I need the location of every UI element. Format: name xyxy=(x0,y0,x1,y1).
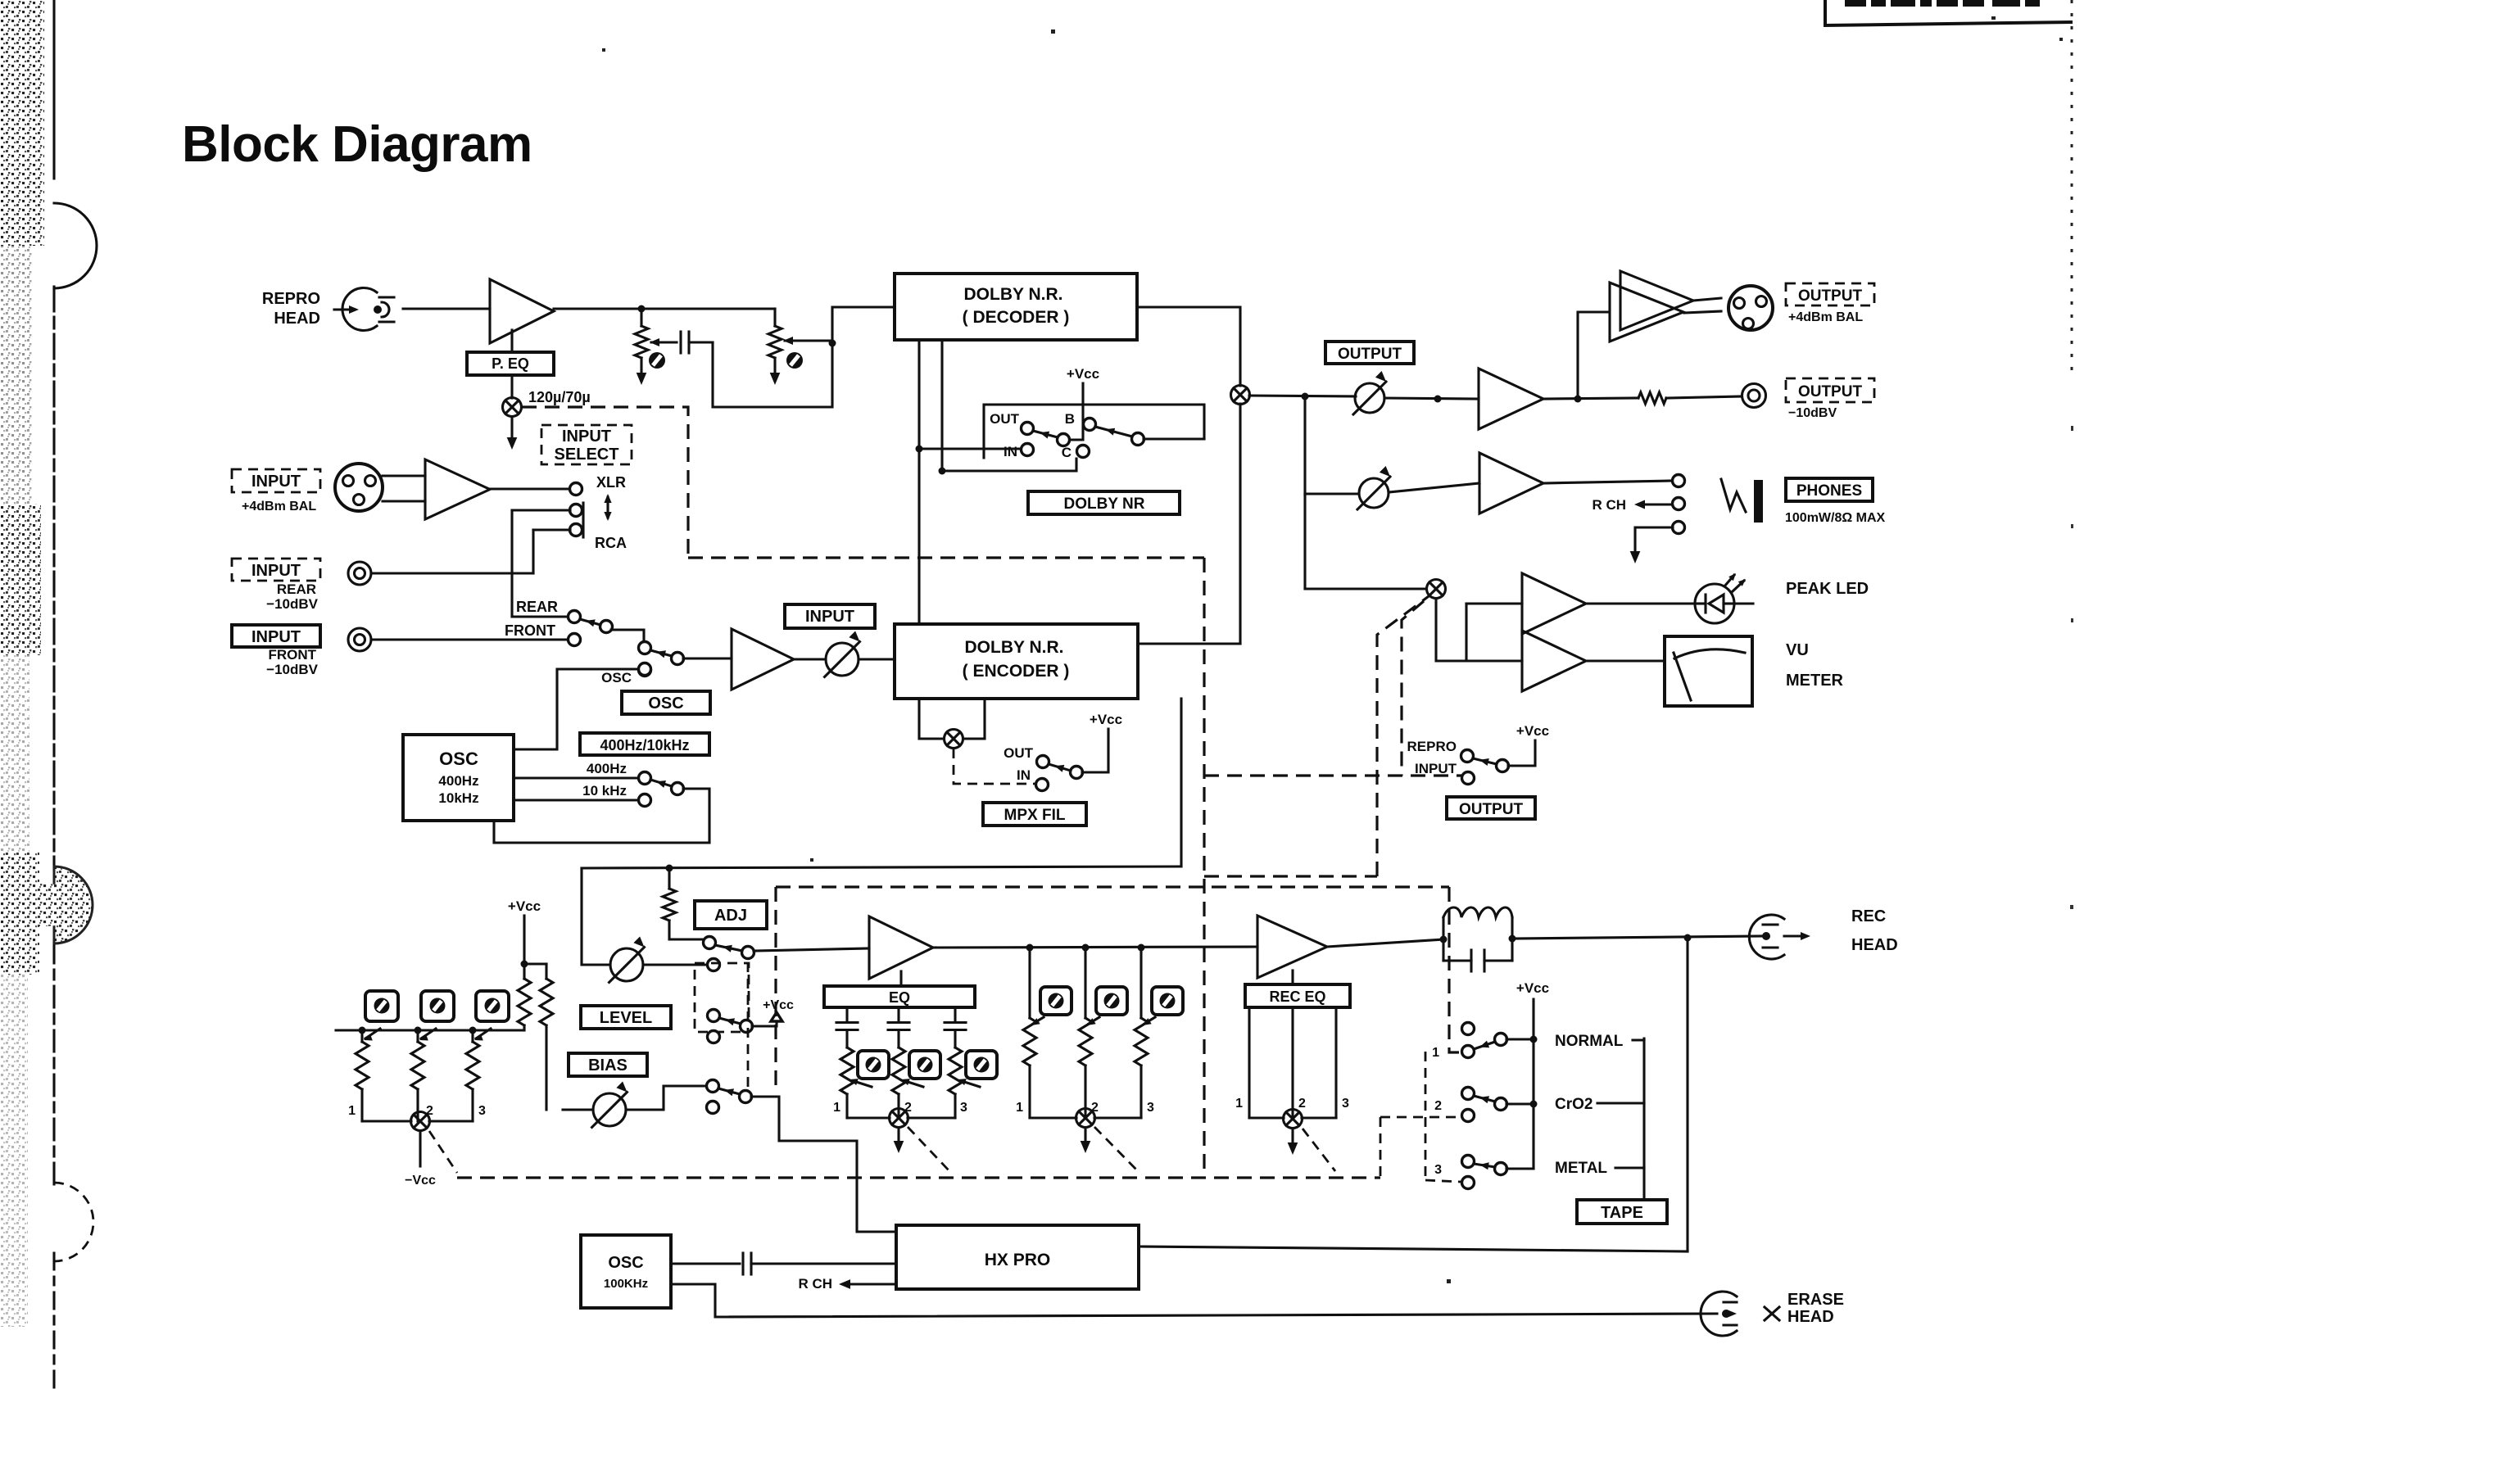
EQ trimmer A3 xyxy=(954,1007,956,1021)
ERASE HEAD xyxy=(1701,1292,1737,1336)
svg-text:INPUT: INPUT xyxy=(1415,761,1457,776)
phones level pot xyxy=(1305,492,1358,495)
INPUT SELECT dashed box xyxy=(541,425,632,464)
tape switch row 1 (NORMAL) xyxy=(1462,1023,1475,1035)
EQ label box xyxy=(899,971,902,986)
svg-text:( DECODER ): ( DECODER ) xyxy=(963,308,1070,327)
svg-text:120µ/70µ: 120µ/70µ xyxy=(528,389,591,405)
phones wire to jack xyxy=(1543,481,1672,483)
record input pot xyxy=(794,658,826,660)
svg-text:OUT: OUT xyxy=(1004,745,1034,761)
rec head branch down xyxy=(1686,938,1688,1251)
FRONT RCA jack xyxy=(348,628,371,651)
svg-text:IN: IN xyxy=(1017,767,1031,783)
decoder output to mixer xyxy=(1137,307,1240,386)
svg-text:R CH: R CH xyxy=(1592,497,1626,513)
svg-text:EQ: EQ xyxy=(889,989,910,1006)
OUTPUT +4dBm dashed box xyxy=(1786,283,1874,305)
output level pot xyxy=(1355,383,1384,413)
svg-text:RCA: RCA xyxy=(595,535,627,551)
svg-text:1: 1 xyxy=(348,1104,356,1118)
REC EQ bus xyxy=(1249,1116,1284,1119)
bias trimmer 3 xyxy=(471,1030,473,1042)
svg-text:3: 3 xyxy=(960,1101,967,1115)
REC HEAD xyxy=(1749,915,1784,959)
-Vcc xyxy=(419,1131,421,1166)
dashed -Vcc control xyxy=(429,1131,457,1173)
svg-text:DOLBY N.R.: DOLBY N.R. xyxy=(965,638,1064,657)
svg-text:OUT: OUT xyxy=(990,411,1020,427)
REC EQ pin 1 xyxy=(1248,1007,1250,1118)
svg-text:INPUT: INPUT xyxy=(562,428,611,446)
EQ trimmer B3 xyxy=(1139,948,1142,1018)
svg-text:SELECT: SELECT xyxy=(555,446,619,464)
EQ trimmer A1 xyxy=(845,1007,848,1021)
mixer down to encoder monitor pin xyxy=(1239,404,1241,644)
svg-text:DOLBY NR: DOLBY NR xyxy=(1064,495,1145,513)
EQ trimmer B2 xyxy=(1084,948,1086,1018)
record source switch xyxy=(639,642,651,654)
10kHz wire xyxy=(514,799,638,801)
svg-text:OSC: OSC xyxy=(648,694,683,713)
svg-text:R CH: R CH xyxy=(798,1276,832,1292)
svg-text:2: 2 xyxy=(1091,1101,1099,1115)
svg-text:2: 2 xyxy=(1298,1097,1306,1111)
erase feed from osc xyxy=(671,1284,1717,1317)
svg-text:+Vcc: +Vcc xyxy=(1090,712,1122,727)
svg-text:XLR: XLR xyxy=(596,474,626,491)
svg-text:B: B xyxy=(1065,411,1075,427)
record trap LC xyxy=(1440,936,1448,943)
svg-text:1: 1 xyxy=(1016,1101,1023,1115)
svg-text:1: 1 xyxy=(833,1101,840,1115)
decoder pins down xyxy=(917,340,920,624)
svg-text:OUTPUT: OUTPUT xyxy=(1459,801,1524,818)
wire amp out to RCA xyxy=(1543,398,1638,399)
branch up to balanced amp xyxy=(1578,312,1608,399)
svg-text:OUTPUT: OUTPUT xyxy=(1798,287,1863,305)
svg-text:2: 2 xyxy=(904,1101,912,1115)
record line amp xyxy=(732,629,794,690)
balanced output amp (double) xyxy=(1610,283,1683,342)
400Hz wire xyxy=(514,776,638,779)
VU meter xyxy=(1665,636,1752,706)
INPUT label box (record) xyxy=(785,604,875,628)
playback mixer xyxy=(1231,386,1250,405)
HX PRO box xyxy=(896,1225,1139,1289)
svg-text:C: C xyxy=(1062,445,1072,460)
MPX dashed to IN contact xyxy=(954,749,1035,784)
ADJ resistor xyxy=(668,868,670,889)
PHONES label box xyxy=(1786,478,1873,501)
REC EQ pin 3 xyxy=(1334,1007,1337,1118)
output amp xyxy=(1479,369,1543,429)
bias trimmer 1 xyxy=(360,1030,363,1042)
EQ A bus xyxy=(847,1116,890,1119)
OSC generator box xyxy=(403,735,514,821)
TAPE label box xyxy=(1577,1200,1667,1224)
bias bus bottom xyxy=(362,1120,411,1122)
svg-text:HEAD: HEAD xyxy=(1851,936,1898,954)
DOLBY N.R. DECODER box xyxy=(895,274,1137,340)
400Hz/10kHz label box xyxy=(580,733,709,755)
svg-text:PEAK LED: PEAK LED xyxy=(1786,580,1869,598)
output resistor xyxy=(1638,392,1666,404)
REAR RCA jack xyxy=(348,562,371,585)
REC EQ label box xyxy=(1291,970,1294,984)
wire pot to output amp xyxy=(1384,398,1479,399)
repro EQ pot 2 xyxy=(773,309,776,326)
wire repro amp output xyxy=(554,307,775,310)
svg-text:REPRO: REPRO xyxy=(1407,739,1457,754)
svg-text:NORMAL: NORMAL xyxy=(1555,1033,1624,1050)
svg-text:OUTPUT: OUTPUT xyxy=(1798,383,1863,400)
svg-text:CrO2: CrO2 xyxy=(1555,1096,1593,1113)
wire amp to XLR contact xyxy=(490,487,569,490)
binder bump 2 (dark) xyxy=(54,866,93,943)
svg-text:3: 3 xyxy=(1434,1163,1442,1177)
svg-text:100KHz: 100KHz xyxy=(604,1277,648,1291)
dashed bias/eq control xyxy=(776,885,1449,888)
rear/front switch xyxy=(569,611,581,623)
svg-text:OSC: OSC xyxy=(439,749,478,769)
encoder bottom pin to record bus xyxy=(1180,699,1182,866)
XLR contact xyxy=(570,483,582,495)
dashed tape select lines xyxy=(1449,887,1462,1052)
phones jack plug symbol xyxy=(1721,479,1746,512)
OSC label box xyxy=(622,691,710,714)
dashed input select control from mixer xyxy=(522,407,688,558)
wire to 2nd switch xyxy=(611,630,644,641)
svg-text:METER: METER xyxy=(1786,672,1844,690)
dolby switch bracket xyxy=(984,405,1204,458)
REC EQ pin 2 xyxy=(1291,1007,1294,1118)
wire bias to HX PRO xyxy=(751,1097,896,1232)
BIAS label box xyxy=(569,1053,647,1076)
wires RCA contacts xyxy=(512,509,570,511)
EQ amp xyxy=(869,916,933,979)
svg-text:REC EQ: REC EQ xyxy=(1269,989,1325,1005)
input amp (XLR) xyxy=(425,459,490,519)
svg-text:ADJ: ADJ xyxy=(714,907,747,925)
svg-text:+Vcc: +Vcc xyxy=(1516,980,1549,996)
XLR/RCA select arrows xyxy=(606,497,609,518)
tape bracket xyxy=(1633,1038,1644,1041)
svg-text:FRONT: FRONT xyxy=(268,647,316,663)
svg-text:2: 2 xyxy=(1434,1099,1442,1113)
svg-text:2: 2 xyxy=(426,1104,433,1118)
level pot branch xyxy=(582,868,610,965)
svg-text:LEVEL: LEVEL xyxy=(600,1009,652,1027)
svg-text:OUTPUT: OUTPUT xyxy=(1338,346,1402,363)
phones amp xyxy=(1389,483,1479,492)
bias trimmer 2 xyxy=(416,1030,419,1042)
svg-text:1: 1 xyxy=(1432,1046,1439,1060)
rec cal switch (dashed box) xyxy=(695,963,749,1032)
svg-text:INPUT: INPUT xyxy=(251,628,301,646)
svg-text:400Hz: 400Hz xyxy=(438,773,478,789)
svg-text:DOLBY N.R.: DOLBY N.R. xyxy=(964,285,1063,304)
wire LC to rec head xyxy=(1512,936,1763,939)
svg-text:HEAD: HEAD xyxy=(274,310,320,328)
XLR output connector xyxy=(1728,286,1773,330)
branch to phones pot xyxy=(1303,396,1306,495)
svg-text:OSC: OSC xyxy=(601,670,632,685)
OSC 100kHz box xyxy=(581,1235,671,1308)
phones ground arrow xyxy=(1635,527,1673,554)
svg-text:400Hz: 400Hz xyxy=(587,761,627,776)
svg-text:+4dBm BAL: +4dBm BAL xyxy=(1788,310,1863,324)
svg-text:400Hz/10kHz: 400Hz/10kHz xyxy=(600,737,689,753)
mixer to meter amps xyxy=(1436,599,1466,661)
HX PRO output to rec line xyxy=(1139,1246,1688,1251)
svg-text:TAPE: TAPE xyxy=(1601,1204,1643,1222)
svg-text:ERASE: ERASE xyxy=(1787,1291,1844,1309)
record bus horizontal xyxy=(582,866,1181,868)
svg-text:VU: VU xyxy=(1786,641,1809,659)
wire pot to encoder xyxy=(859,658,895,660)
EQ B bus xyxy=(1030,1116,1076,1119)
svg-text:100mW/8Ω MAX: 100mW/8Ω MAX xyxy=(1785,511,1886,525)
svg-text:IN: IN xyxy=(1004,444,1017,459)
bias trimmer bus xyxy=(336,1029,524,1031)
wire P.EQ to mixer xyxy=(510,375,513,398)
svg-text:INPUT: INPUT xyxy=(251,562,301,580)
bias feed resistors xyxy=(524,962,546,965)
svg-text:OSC: OSC xyxy=(608,1254,643,1272)
DOLBY NR label box xyxy=(1028,491,1180,514)
repro head xyxy=(342,288,377,331)
svg-text:+4dBm BAL: +4dBm BAL xyxy=(242,500,316,514)
svg-text:P. EQ: P. EQ xyxy=(492,355,529,372)
svg-text:INPUT: INPUT xyxy=(251,473,301,491)
svg-text:REAR: REAR xyxy=(516,599,558,615)
P. EQ box xyxy=(510,330,513,352)
MPX mixer xyxy=(945,730,963,749)
svg-text:+Vcc: +Vcc xyxy=(763,998,794,1012)
svg-text:PHONES: PHONES xyxy=(1796,482,1862,500)
svg-text:−10dBV: −10dBV xyxy=(1788,406,1837,420)
binder bump 3 (faint) xyxy=(54,1183,93,1261)
INPUT +4dBm dashed box xyxy=(232,469,320,492)
tape switch row 3 (METAL) xyxy=(1462,1156,1475,1168)
svg-text:+Vcc: +Vcc xyxy=(1067,366,1099,382)
dashed input select to record select xyxy=(688,556,1204,559)
dashed from EQ A mixer xyxy=(908,1127,950,1172)
MPX FIL label box xyxy=(983,803,1086,826)
repro amp xyxy=(490,279,554,343)
svg-text:HEAD: HEAD xyxy=(1787,1308,1834,1326)
svg-text:−10dBV: −10dBV xyxy=(266,596,318,612)
RCA pair contacts xyxy=(570,504,582,517)
REC EQ amp xyxy=(1257,916,1327,978)
INPUT REAR dashed box xyxy=(232,559,320,581)
dotted vertical line top right xyxy=(2071,0,2073,370)
wires XLR to input amp xyxy=(383,474,425,477)
ADJ label box xyxy=(695,901,767,929)
XLR input connector xyxy=(335,464,383,511)
encoder monitor input from mixer xyxy=(1138,642,1240,645)
EQ trimmer A2 xyxy=(897,1007,899,1021)
svg-text:MPX FIL: MPX FIL xyxy=(1004,807,1066,824)
svg-text:INPUT: INPUT xyxy=(805,608,854,626)
left margin scan speckle xyxy=(0,0,44,246)
svg-text:3: 3 xyxy=(478,1104,486,1118)
OUTPUT label box (monitor) xyxy=(1447,797,1535,819)
svg-text:REC: REC xyxy=(1851,907,1886,925)
bias switch xyxy=(626,1086,705,1110)
svg-text:Block Diagram: Block Diagram xyxy=(182,116,532,173)
INPUT FRONT box xyxy=(232,625,320,647)
vu amp xyxy=(1466,659,1522,662)
RCA output jack xyxy=(1742,384,1766,408)
repro EQ pot 1 xyxy=(640,309,642,326)
svg-text:BIAS: BIAS xyxy=(588,1056,627,1075)
ADJ switch xyxy=(704,937,716,949)
DOLBY N.R. ENCODER box xyxy=(895,624,1138,699)
arrow down from mixer xyxy=(510,417,513,439)
svg-text:3: 3 xyxy=(1342,1097,1349,1111)
capacitor repro EQ xyxy=(679,332,682,353)
svg-text:−10dBV: −10dBV xyxy=(266,662,318,677)
tape switch row 2 (CrO2) xyxy=(1462,1088,1475,1100)
phones jack contacts xyxy=(1673,475,1685,487)
svg-text:METAL: METAL xyxy=(1555,1160,1607,1177)
svg-text:( ENCODER ): ( ENCODER ) xyxy=(963,662,1070,681)
wire to line amp xyxy=(683,657,732,659)
svg-text:REPRO: REPRO xyxy=(262,290,320,308)
peak amp xyxy=(1466,602,1522,604)
OUTPUT label box xyxy=(1325,342,1414,364)
OUTPUT -10dBV dashed box xyxy=(1786,378,1874,402)
bias level pot xyxy=(593,1093,626,1126)
svg-text:−Vcc: −Vcc xyxy=(405,1174,436,1188)
left margin vertical line xyxy=(52,0,55,179)
svg-text:REAR: REAR xyxy=(277,581,316,597)
LEVEL label box xyxy=(581,1006,671,1029)
binder bump 1 xyxy=(54,203,97,288)
osc select switch xyxy=(672,783,684,795)
svg-text:+Vcc: +Vcc xyxy=(508,898,541,914)
stray scan marks xyxy=(1051,29,1055,34)
encoder bottom stubs to MPX mixer xyxy=(919,699,944,739)
mixer (120u/70u EQ switch) xyxy=(503,398,522,417)
svg-text:FRONT: FRONT xyxy=(505,622,555,639)
wire osc to osc contact xyxy=(514,669,638,749)
svg-text:HX PRO: HX PRO xyxy=(985,1251,1051,1269)
svg-text:3: 3 xyxy=(1147,1101,1154,1115)
peak led xyxy=(1586,602,1695,604)
svg-text:10kHz: 10kHz xyxy=(438,790,478,806)
svg-text:+Vcc: +Vcc xyxy=(1516,723,1549,739)
wire EQ network to decoder xyxy=(713,307,895,407)
dashed monitor control xyxy=(1204,774,1461,776)
wire repro head to amp xyxy=(403,307,490,310)
wire ADJ pivot to EQ amp xyxy=(754,948,869,951)
playback line mixer to output pot xyxy=(1249,396,1356,396)
svg-text:10 kHz: 10 kHz xyxy=(582,783,627,799)
osc cap to HX PRO xyxy=(671,1262,740,1265)
meter branch mixer xyxy=(1303,495,1306,589)
wire to C contact xyxy=(942,459,1076,471)
EQ trimmer B1 xyxy=(1028,948,1031,1018)
OSC contact xyxy=(639,663,651,676)
svg-text:1: 1 xyxy=(1235,1097,1243,1111)
top-right logo box (cut off) xyxy=(1825,0,2073,25)
osc feedback loop xyxy=(494,789,709,843)
